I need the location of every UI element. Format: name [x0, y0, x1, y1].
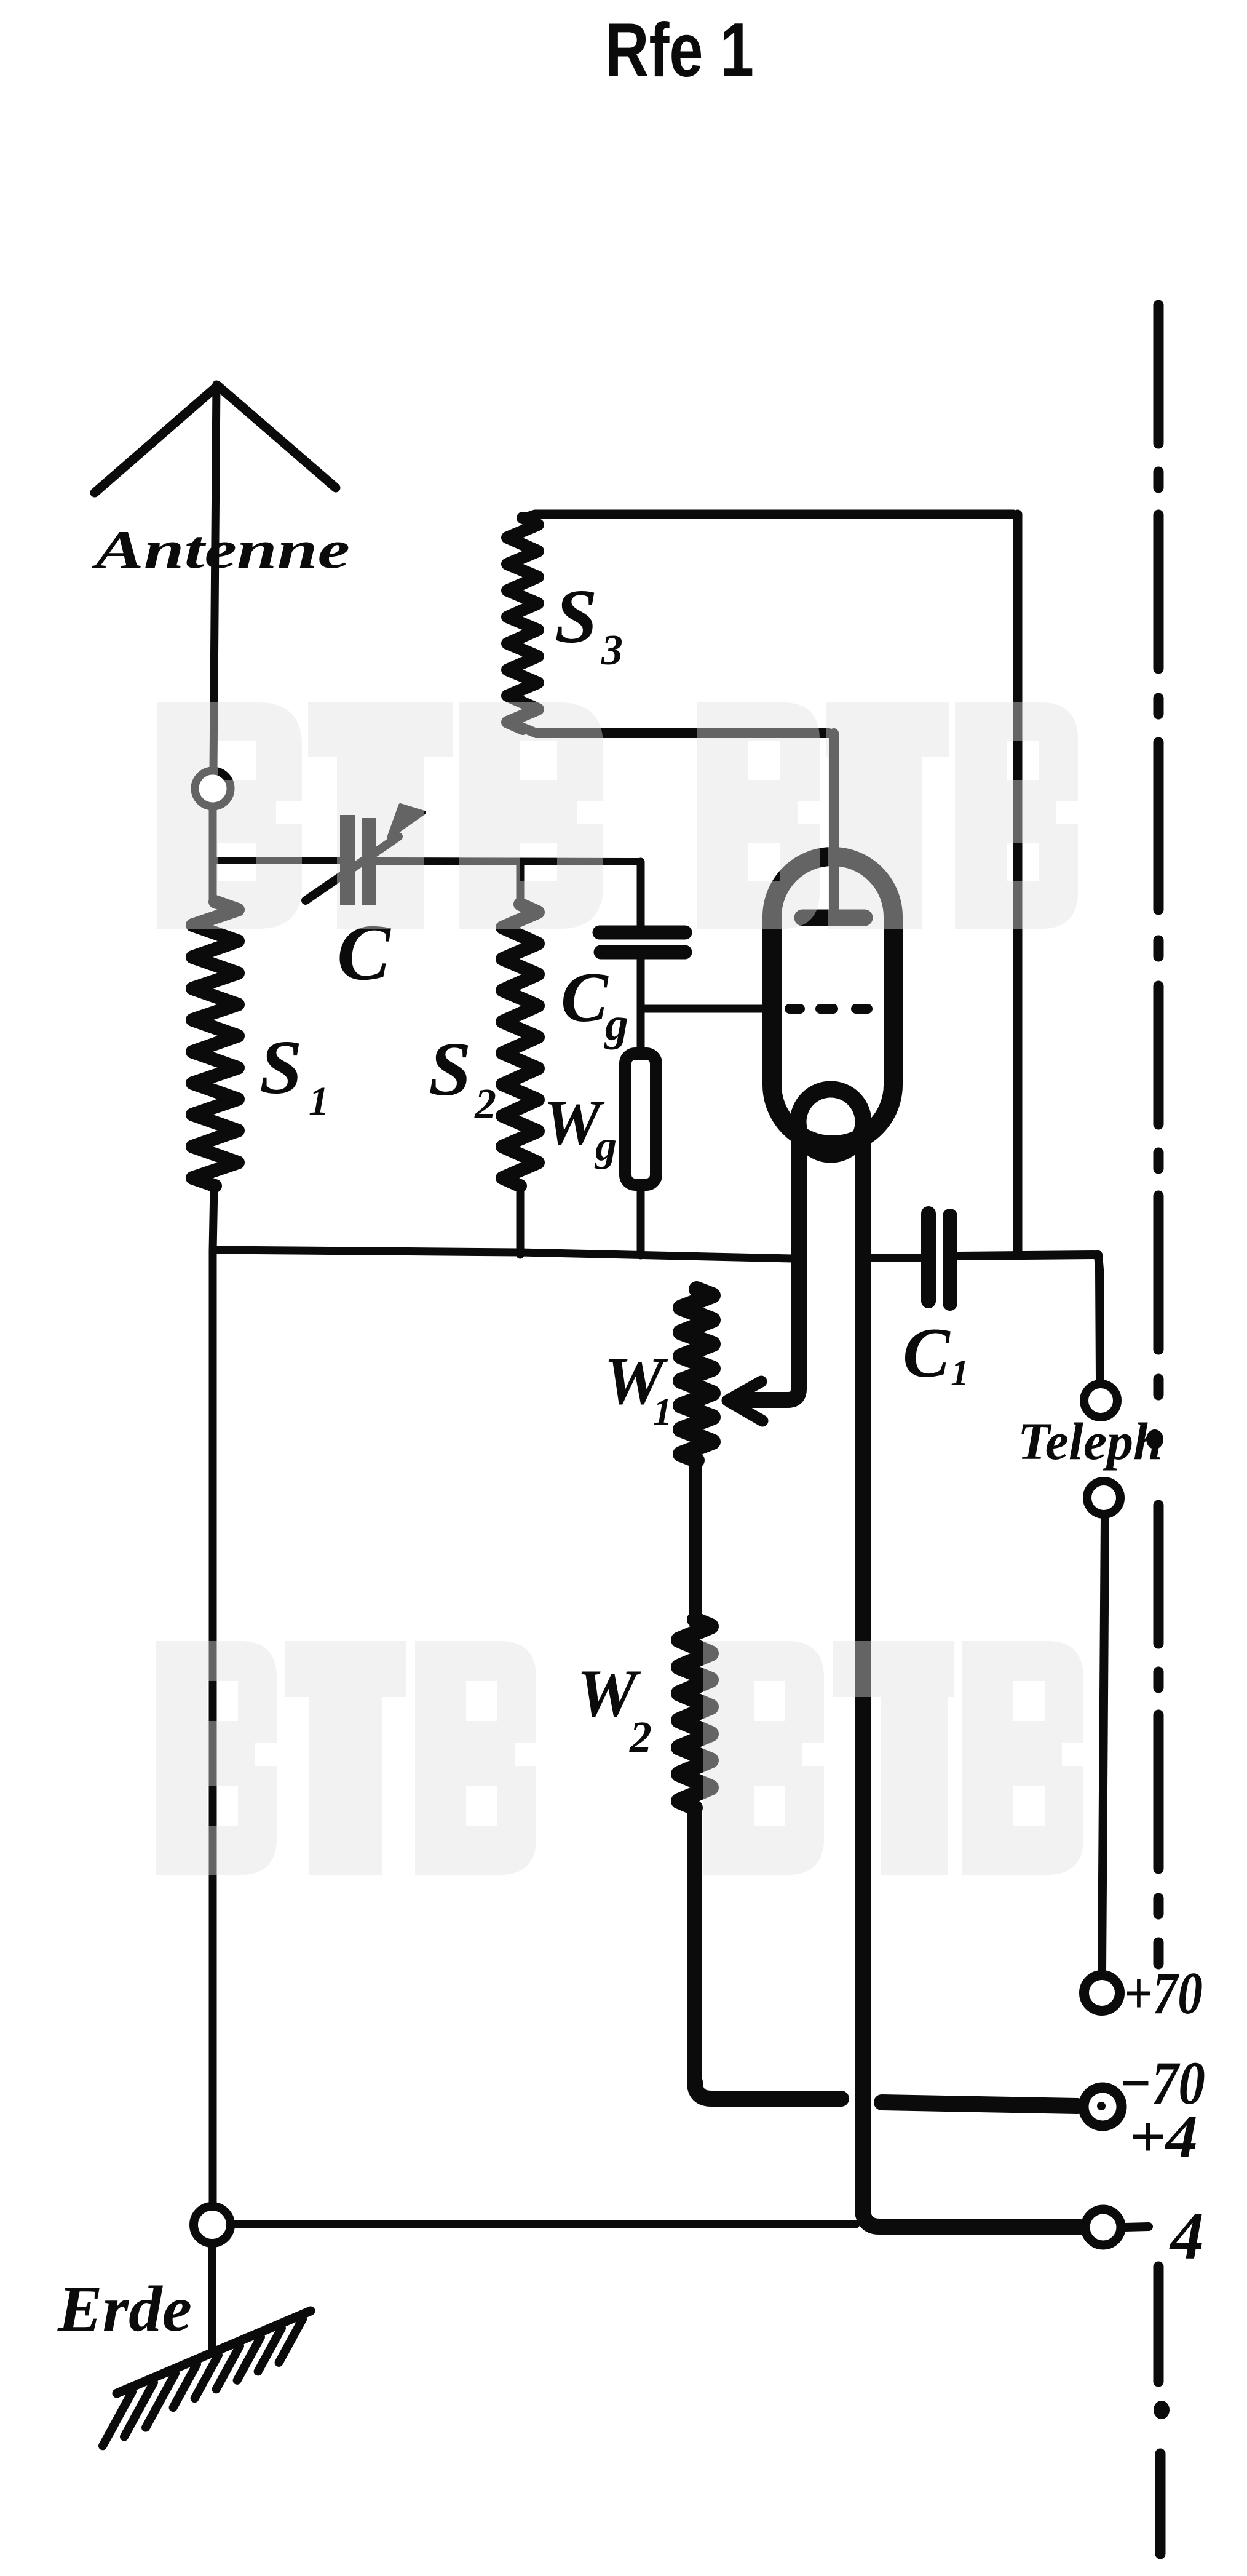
svg-text:S: S: [429, 1027, 472, 1112]
capacitor Cg plate 2: [601, 945, 685, 960]
antenna symbol: [95, 386, 336, 493]
capacitor C1 plate 2: [943, 1216, 957, 1303]
svg-text:+70: +70: [1124, 1960, 1203, 2027]
wire W2 down: [687, 1808, 702, 2082]
terminal -4: [1085, 2209, 1121, 2245]
svg-text:2: 2: [474, 1081, 496, 1128]
capacitor C1 plate 1: [921, 1214, 936, 1301]
terminal -70/+4: [1083, 2088, 1122, 2126]
wire bottom bus: [213, 1250, 792, 1258]
wire teleph to +70: [1102, 1515, 1105, 1972]
tube grid dashes: [790, 1004, 800, 1014]
watermark BTB BTB overlay: [156, 702, 1083, 1875]
wire Cg to Wg: [637, 959, 645, 1049]
wire crossing to -70: [882, 2102, 1077, 2106]
wire Wg bottom: [637, 1190, 645, 1255]
wire W2 to -70 terminal: [695, 2082, 841, 2099]
wire node A to C: [213, 857, 342, 864]
terminal Teleph top: [1084, 1384, 1117, 1417]
antenna terminal: [195, 771, 231, 806]
watermark BTB BTB background: [156, 702, 1083, 1875]
terminal +70: [1084, 1975, 1120, 2011]
svg-text:Rfe 1: Rfe 1: [605, 8, 754, 93]
coil S1: [192, 902, 238, 1186]
wire to Cg: [637, 862, 645, 928]
label -4: [1125, 2227, 1149, 2227]
resistor W1: [681, 1289, 713, 1460]
svg-text:1: 1: [951, 1353, 969, 1393]
filament left leg: [745, 1135, 799, 1400]
panel boundary dash-dot line: [1154, 305, 1164, 443]
svg-text:g: g: [594, 1123, 617, 1170]
svg-text:1: 1: [653, 1391, 672, 1433]
tube anode lead: [829, 733, 839, 910]
svg-text:Erde: Erde: [57, 2273, 192, 2345]
svg-text:S: S: [259, 1025, 303, 1110]
tube envelope U1: [772, 857, 893, 1145]
wire S3 right drop: [1013, 514, 1023, 1253]
filament right leg: [855, 1135, 871, 2213]
wire terminal to S1: [209, 806, 217, 902]
wire S3 top: [524, 514, 1013, 518]
capacitor C plate 2: [362, 818, 376, 905]
svg-text:Teleph: Teleph: [1018, 1412, 1163, 1471]
coil S2: [502, 904, 538, 1186]
wire S1 bottom: [213, 1186, 214, 1251]
capacitor C plate 1: [340, 815, 355, 905]
svg-text:2: 2: [629, 1712, 652, 1762]
capacitor Cg plate 1: [600, 926, 685, 940]
wiper arrowhead: [727, 1381, 762, 1421]
svg-text:Antenne: Antenne: [91, 520, 350, 580]
wire leg to -4 terminal: [863, 2208, 1080, 2227]
svg-text:4: 4: [1169, 2198, 1204, 2273]
wire to ground: [208, 2243, 216, 2348]
wire S2 top stub: [517, 862, 525, 904]
wire W1 to W2: [689, 1460, 702, 1620]
wire C1 to teleph corner: [957, 1255, 1100, 1380]
svg-text:+4: +4: [1129, 2104, 1198, 2170]
coil S3: [507, 518, 538, 729]
wire S2 bottom: [517, 1186, 525, 1255]
tube anode plate: [802, 910, 865, 926]
wire grid to tube: [641, 1005, 764, 1013]
resistor W2: [679, 1620, 711, 1808]
svg-text:C: C: [903, 1314, 951, 1392]
ground symbol: [117, 2311, 311, 2393]
tube filament loop: [798, 1089, 863, 1155]
svg-text:C: C: [561, 958, 609, 1036]
wire earth bus: [236, 2220, 856, 2228]
wire C to Cg node: [376, 861, 639, 862]
svg-text:3: 3: [601, 627, 623, 674]
terminal Teleph bottom: [1087, 1481, 1120, 1514]
svg-text:1: 1: [309, 1079, 329, 1124]
svg-text:S: S: [555, 574, 598, 659]
resistor Wg: [625, 1054, 656, 1185]
capacitor C arrow: [306, 837, 398, 900]
wire left bus down to earth: [209, 1251, 217, 2207]
svg-text:g: g: [604, 998, 628, 1050]
antenna lead wire: [213, 384, 216, 770]
wire leg to C1: [870, 1254, 921, 1262]
terminal earth: [194, 2206, 231, 2243]
wire S3 bottom to anode: [526, 729, 829, 733]
